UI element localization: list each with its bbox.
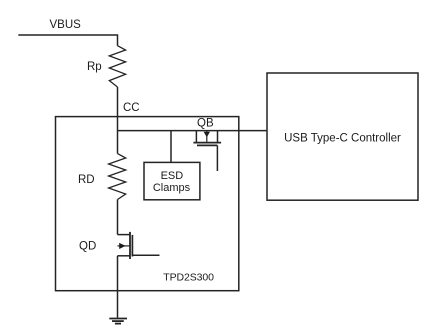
svg-text:ESD: ESD bbox=[161, 170, 184, 182]
svg-text:QB: QB bbox=[197, 117, 214, 129]
svg-text:Rp: Rp bbox=[87, 61, 102, 73]
svg-text:USB Type-C Controller: USB Type-C Controller bbox=[284, 133, 401, 145]
svg-text:CC: CC bbox=[123, 102, 140, 114]
svg-text:QD: QD bbox=[79, 240, 96, 252]
svg-text:RD: RD bbox=[78, 174, 95, 186]
svg-text:Clamps: Clamps bbox=[153, 182, 191, 194]
svg-text:VBUS: VBUS bbox=[50, 19, 82, 31]
svg-text:TPD2S300: TPD2S300 bbox=[163, 272, 214, 284]
